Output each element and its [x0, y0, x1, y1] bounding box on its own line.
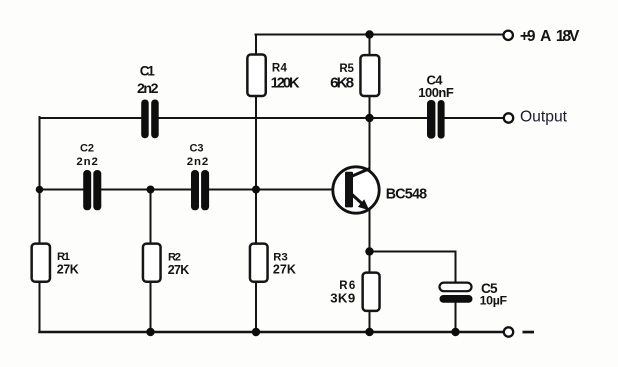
svg-text:3K9: 3K9 [330, 291, 355, 306]
svg-text:100nF: 100nF [418, 85, 454, 100]
svg-text:BC548: BC548 [386, 187, 429, 203]
svg-text:R5: R5 [339, 63, 354, 75]
svg-text:R2: R2 [168, 251, 181, 263]
svg-text:C1: C1 [140, 64, 156, 79]
svg-text:27K: 27K [57, 263, 79, 277]
svg-text:C2: C2 [80, 143, 97, 155]
svg-text:+9 A 18V: +9 A 18V [520, 28, 580, 45]
svg-text:120K: 120K [271, 75, 300, 91]
svg-text:Output: Output [520, 109, 568, 126]
svg-text:R4: R4 [272, 63, 288, 75]
svg-text:27K: 27K [273, 263, 296, 277]
svg-text:2n2: 2n2 [187, 156, 211, 168]
svg-text:R3: R3 [273, 251, 287, 263]
svg-text:C3: C3 [190, 143, 207, 155]
svg-text:27K: 27K [168, 263, 190, 277]
svg-text:2n2: 2n2 [137, 81, 160, 97]
svg-text:2n2: 2n2 [76, 156, 100, 168]
svg-text:10µF: 10µF [480, 294, 508, 308]
svg-text:R1: R1 [57, 251, 70, 263]
svg-text:6K8: 6K8 [330, 75, 354, 92]
